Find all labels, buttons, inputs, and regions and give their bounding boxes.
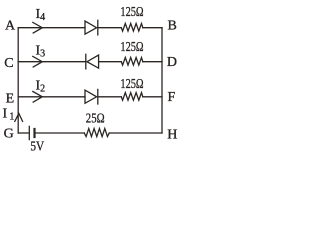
arrow I1 left bus (up) (15, 113, 23, 121)
svg-text:25Ω: 25Ω (86, 112, 105, 127)
wire left bus A-G (17, 28, 19, 133)
resistor 125ohm row E (121, 93, 142, 101)
wire row E right segment (143, 96, 162, 98)
svg-text:125Ω: 125Ω (120, 5, 143, 20)
svg-text:I4: I4 (36, 7, 46, 23)
svg-text:125Ω: 125Ω (120, 40, 143, 55)
arrow I3 row C (33, 56, 43, 67)
svg-text:H: H (167, 127, 177, 142)
wire row A middle segment (98, 27, 121, 29)
svg-text:E: E (6, 92, 15, 107)
wire row C left segment (18, 61, 85, 63)
resistor 125ohm row C (121, 58, 142, 66)
svg-text:G: G (4, 126, 14, 141)
wire right bus B-H (161, 28, 163, 133)
wire row G middle segment (35, 132, 84, 134)
diode D2 row C (points left) (87, 55, 99, 68)
svg-text:C: C (4, 56, 13, 71)
arrow I2 row E (33, 92, 43, 103)
svg-text:F: F (168, 90, 176, 105)
resistor 25ohm row G (84, 129, 109, 137)
wire row C right segment (143, 61, 162, 63)
battery 5V (28, 126, 30, 139)
svg-text:5V: 5V (30, 139, 44, 153)
svg-text:I2: I2 (36, 79, 46, 95)
wire row G left segment (18, 132, 29, 134)
wire row G right segment (109, 132, 162, 134)
wire row E middle segment (98, 96, 121, 98)
svg-text:A: A (5, 19, 16, 34)
arrow I4 row A (33, 22, 43, 33)
diode D3 row E (85, 90, 97, 103)
svg-text:D: D (167, 55, 177, 70)
wire row E left segment (18, 96, 85, 98)
svg-text:I1: I1 (3, 107, 15, 123)
svg-text:I3: I3 (36, 44, 46, 60)
wire row A left segment (18, 27, 85, 29)
resistor 125ohm row A (121, 24, 142, 32)
svg-text:125Ω: 125Ω (120, 77, 143, 92)
wire row C middle segment (99, 61, 122, 63)
diode D1 row A (85, 21, 97, 34)
wire row A right segment (143, 27, 162, 29)
svg-text:B: B (168, 19, 177, 34)
